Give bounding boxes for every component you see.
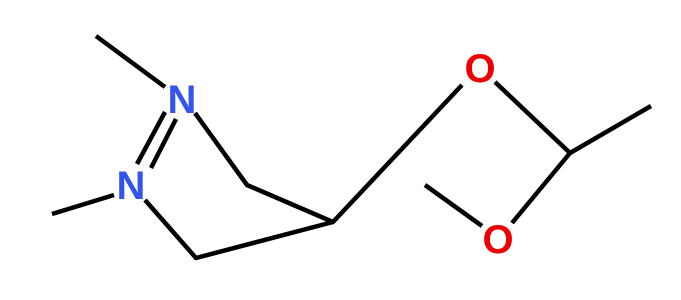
svg-text:N: N <box>168 78 197 122</box>
wire top N to ring C, ring C to junction C, chain up to top O <box>195 85 462 222</box>
svg-text:O: O <box>464 47 495 91</box>
wire N=N double bond inner line <box>151 119 176 168</box>
wire bottom O up-right to CH <box>512 153 570 223</box>
wire bottom N to ring C, ring C to junction C <box>145 200 333 258</box>
wire methyl CH3 on bottom N <box>52 195 114 214</box>
wire methyl CH3 to top N <box>96 36 165 87</box>
wire N=N double bond outer line <box>137 112 165 164</box>
svg-text:N: N <box>117 164 146 208</box>
wire bottom O up-left to CH3 <box>425 185 482 226</box>
svg-text:O: O <box>482 218 513 262</box>
wire top O to CH, CH to methyl CH3 <box>495 82 651 153</box>
